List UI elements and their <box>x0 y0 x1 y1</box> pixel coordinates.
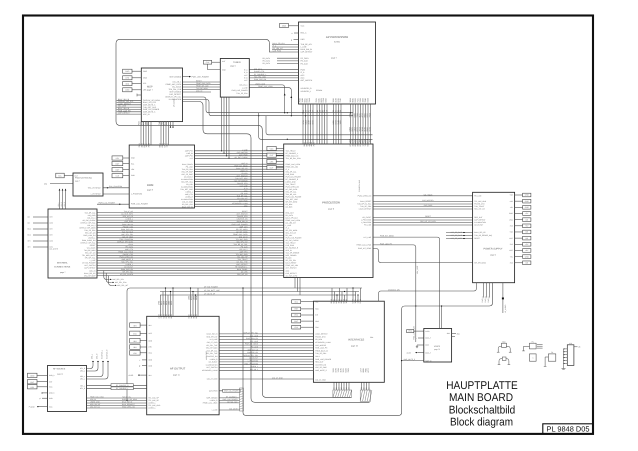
connector boxes left of PROCESSOR <box>267 146 284 169</box>
svg-text:PWR_C: PWR_C <box>487 296 490 303</box>
svg-text:page 14: page 14 <box>57 373 63 376</box>
svg-text:VSC_SP_SKIP: VSC_SP_SKIP <box>84 274 96 277</box>
svg-text:PLUGD: PLUGD <box>29 406 36 409</box>
svg-text:FRME_AAC_LRCK: FRME_AAC_LRCK <box>258 85 274 88</box>
svg-text:LINEIN_L: LINEIN_L <box>251 365 258 368</box>
svg-text:FRME_BCLK_IN: FRME_BCLK_IN <box>315 349 329 352</box>
svg-text:CD_BCK: CD_BCK <box>286 205 294 208</box>
connector box left of TUNER <box>203 60 220 69</box>
svg-text:DISPLAY_SPI_SCL: DISPLAY_SPI_SCL <box>243 331 258 334</box>
svg-text:8893: 8893 <box>147 121 150 125</box>
transistor Q1 <box>497 340 512 352</box>
svg-text:AP_MUTE_SP: AP_MUTE_SP <box>204 293 216 296</box>
svg-text:FRME_AAC_LRCK: FRME_AAC_LRCK <box>357 244 373 247</box>
wires MSP input lines from bus spine <box>117 98 142 115</box>
svg-text:ILLUMINATION: ILLUMINATION <box>206 363 218 366</box>
svg-text:PWR_INT_SENS: PWR_INT_SENS <box>358 247 372 250</box>
svg-text:PHASE_CTO: PHASE_CTO <box>254 70 265 73</box>
svg-text:s: s <box>416 337 417 340</box>
svg-text:LINEIN_L: LINEIN_L <box>148 407 155 410</box>
svg-text:LOUD_DETECT: LOUD_DETECT <box>315 333 327 336</box>
svg-text:ANT: ANT <box>222 60 225 63</box>
wires MSP bottom pins to DRM top pins <box>141 122 174 145</box>
svg-text:ALBD: ALBD <box>407 352 412 355</box>
svg-text:CHASSIS_ON: CHASSIS_ON <box>315 363 327 366</box>
block PHANTOM FEEDING N1 <box>73 173 103 196</box>
svg-text:SOURCE2_R: SOURCE2_R <box>301 87 313 90</box>
svg-text:GND: GND <box>525 206 530 209</box>
wire rail MSP to mid bus y112.7 <box>183 97 354 113</box>
wire main power bus power supply to bottom left <box>243 283 493 416</box>
svg-text:CHASSIS_ON: CHASSIS_ON <box>247 351 259 354</box>
pin number stacks below MSP <box>138 121 168 125</box>
connector boxes left of RF SOURCE <box>28 373 48 389</box>
junction dots mid rails <box>258 112 351 116</box>
svg-text:37: 37 <box>312 110 315 112</box>
svg-text:PWR_A: PWR_A <box>481 296 484 303</box>
svg-text:GND: GND <box>143 76 148 79</box>
svg-text:MSP: MSP <box>147 85 153 88</box>
svg-text:PD_LINE: PD_LINE <box>251 345 259 348</box>
svg-text:MIC_SPL_INT: MIC_SPL_INT <box>117 284 128 287</box>
svg-text:CIG_AT_GND: CIG_AT_GND <box>272 376 283 379</box>
svg-text:L_PHANTOM: L_PHANTOM <box>131 193 142 196</box>
svg-text:AP_SW_POWER: AP_SW_POWER <box>204 285 218 288</box>
svg-text:SCL: SCL <box>294 300 298 303</box>
svg-text:3V3: 3V3 <box>510 225 513 228</box>
connector boxes left of AF OUTPUT <box>130 323 147 368</box>
svg-text:AMR_MUTE_S: AMR_MUTE_S <box>404 358 416 361</box>
svg-text:KEYBOARD_ILLUM: KEYBOARD_ILLUM <box>315 341 331 344</box>
svg-text:7083: 7083 <box>347 368 350 372</box>
svg-text:PD_LINE: PD_LINE <box>364 224 372 227</box>
wires RF SOURCE mic and linein to AF OUTPUT <box>87 396 147 409</box>
svg-text:CAR_MOTOR+: CAR_MOTOR+ <box>422 199 434 202</box>
svg-text:CD2: CD2 <box>50 222 53 225</box>
svg-text:TUN_SP_SDA: TUN_SP_SDA <box>315 352 327 355</box>
svg-text:I2S AUDIO: I2S AUDIO <box>173 98 176 107</box>
svg-text:CAR_POSI: CAR_POSI <box>273 50 282 53</box>
svg-text:GND: GND <box>125 70 130 73</box>
svg-text:POW: POW <box>301 68 306 71</box>
svg-text:PWR_LOW_PH: PWR_LOW_PH <box>315 347 328 350</box>
svg-text:ADC_IN: ADC_IN <box>143 113 150 116</box>
svg-text:PD_DATA: PD_DATA <box>262 60 270 63</box>
svg-text:TUN_BP_ACL: TUN_BP_ACL <box>207 349 218 352</box>
svg-text:KEYBOARD_ILLUM: KEYBOARD_ILLUM <box>202 369 218 372</box>
wire bus MSP right to lower bus with corner <box>183 102 370 403</box>
svg-text:CD_SCL_THE: CD_SCL_THE <box>206 344 218 347</box>
svg-text:7242: 7242 <box>339 98 342 102</box>
svg-text:LLS_LINE: LLS_LINE <box>363 236 372 239</box>
svg-text:ADC_IN: ADC_IN <box>196 90 203 93</box>
svg-text:AD_IDC_CLOCK: AD_IDC_CLOCK <box>120 273 134 276</box>
svg-text:SCL: SCL <box>315 300 318 303</box>
svg-text:SCL: SCL <box>143 82 147 85</box>
connector boxes left of DRM <box>112 156 129 178</box>
svg-text:7824: 7824 <box>148 143 151 147</box>
connector boxes left of MSP <box>123 69 142 92</box>
svg-text:page 10: page 10 <box>351 345 358 348</box>
wire processor to power supply lower pin <box>373 249 473 263</box>
wire MSP left stub <box>137 94 141 97</box>
svg-text:CAP_DETECT: CAP_DETECT <box>301 51 314 54</box>
block INTERNAL CONNECTIONS J1 <box>48 209 97 278</box>
svg-text:SPI_SPI_MISO: SPI_SPI_MISO <box>474 261 486 264</box>
svg-text:TRKL_PHANTOM: TRKL_PHANTOM <box>244 362 258 365</box>
svg-text:TUN_SP_SDA: TUN_SP_SDA <box>236 92 248 95</box>
svg-text:TUN_BP_ERROR_INQ: TUN_BP_ERROR_INQ <box>474 234 492 237</box>
svg-text:page 72: page 72 <box>434 348 440 351</box>
svg-text:PWR_B: PWR_B <box>484 296 487 303</box>
svg-text:CONTROL BUS: CONTROL BUS <box>358 179 361 192</box>
svg-text:VAL_LINE: VAL_LINE <box>416 265 419 274</box>
svg-text:PWR_LIVE_POWER: PWR_LIVE_POWER <box>192 75 210 78</box>
svg-text:PD_DATA: PD_DATA <box>301 57 310 60</box>
svg-text:SCL: SCL <box>131 162 134 165</box>
svg-text:RESET: RESET <box>425 215 432 218</box>
svg-text:NF1_L: NF1_L <box>90 354 93 359</box>
svg-text:RES_S: RES_S <box>301 32 308 35</box>
svg-text:CAR_MOTOR: CAR_MOTOR <box>315 344 327 347</box>
wire VAL_LINE vertical <box>373 242 419 342</box>
svg-text:g: g <box>291 38 292 41</box>
svg-text:VSC_SP_MOD: VSC_SP_MOD <box>450 237 462 240</box>
svg-text:CD_ELECT: CD_ELECT <box>249 357 258 360</box>
svg-text:page 7: page 7 <box>147 89 153 92</box>
wires INTERFACES top pins from rails <box>332 287 361 301</box>
svg-text:VSC_SP_SKIP: VSC_SP_SKIP <box>315 366 327 369</box>
svg-text:0033: 0033 <box>312 120 315 124</box>
svg-text:PWR_INT_SENS: PWR_INT_SENS <box>245 343 259 346</box>
svg-text:FRME_AAC_LRCK: FRME_AAC_LRCK <box>203 402 219 405</box>
wire bundle AF OUTPUT to INTERFACES <box>219 331 313 379</box>
svg-text:CD_ELECT: CD_ELECT <box>474 224 483 227</box>
svg-text:SOURCE_R: SOURCE_R <box>105 349 108 359</box>
IC VOICE U6 <box>424 329 452 363</box>
connector box left of VOICE <box>407 330 424 333</box>
svg-text:PD_DATA: PD_DATA <box>262 62 270 65</box>
svg-text:SCL: SCL <box>116 157 120 160</box>
svg-text:GND: GND <box>30 375 35 378</box>
svg-text:CIG_AT_GND: CIG_AT_GND <box>207 378 218 381</box>
svg-text:AP_SW_BATT_LIVE: AP_SW_BATT_LIVE <box>204 289 221 292</box>
svg-text:page 9: page 9 <box>490 254 496 257</box>
svg-text:VSC_SP_SKIP: VSC_SP_SKIP <box>451 234 463 237</box>
wires POWER SUPPLY bottom stubs <box>481 283 490 303</box>
svg-text:CIG_AN_1: CIG_AN_1 <box>239 84 247 87</box>
IC AP PROCESSOR U3 <box>299 22 376 104</box>
svg-text:LINEIN_GND: LINEIN_GND <box>255 82 266 85</box>
wires TUNER right pins to AP PROCESSOR <box>249 67 298 81</box>
block RF SOURCE A2 <box>48 366 87 412</box>
svg-text:PROCESSOR: PROCESSOR <box>322 201 340 205</box>
svg-text:TDA_BP_PAL_CSN: TDA_BP_PAL_CSN <box>286 157 302 160</box>
svg-text:5574: 5574 <box>369 127 372 131</box>
wire MSP PWR_LIVE_POWER with arrow <box>183 75 210 78</box>
svg-text:GND: GND <box>301 38 306 41</box>
wire CHASSIS_ON interfaces to power supply <box>379 283 477 302</box>
svg-text:LINEIN_R: LINEIN_R <box>210 358 218 361</box>
connector box left of PHANTOM FEEDING <box>44 173 73 185</box>
connector hatch blocks below INTERFACES <box>333 390 372 401</box>
svg-text:1905: 1905 <box>339 120 342 124</box>
junction dot y139.3 bus <box>287 139 288 140</box>
svg-text:BALK_SPI_CS: BALK_SPI_CS <box>474 231 486 234</box>
svg-text:MIC_SPL_SCL: MIC_SPL_SCL <box>113 278 125 281</box>
connector strip hatched bottom left <box>240 388 244 411</box>
svg-text:CD_UNITS: CD_UNITS <box>50 248 59 251</box>
svg-text:PHASE_DTO: PHASE_DTO <box>315 335 326 338</box>
svg-text:SOURCE_L: SOURCE_L <box>100 350 103 359</box>
svg-text:GND: GND <box>525 194 530 197</box>
svg-text:s: s <box>292 32 293 35</box>
svg-text:TUNER: TUNER <box>233 61 241 64</box>
svg-text:PD_DATA: PD_DATA <box>262 57 270 60</box>
svg-text:AD_IDC_CLOCK: AD_IDC_CLOCK <box>235 156 249 159</box>
svg-text:PWR_LIVE_POWER: PWR_LIVE_POWER <box>232 89 249 92</box>
svg-text:MSP_DEMOD: MSP_DEMOD <box>170 75 182 78</box>
svg-text:BALK_INH_IN: BALK_INH_IN <box>207 333 219 336</box>
svg-text:3234c: 3234c <box>334 41 341 44</box>
wires TUNER bottom pins down to DRM bus lines <box>221 97 230 159</box>
svg-text:GBL: GBL <box>370 336 373 339</box>
wire ALBD arrow into AF OUTPUT <box>129 374 147 377</box>
svg-text:L_LINE: L_LINE <box>212 409 219 412</box>
svg-text:87: 87 <box>348 387 351 389</box>
svg-text:8350: 8350 <box>325 98 328 102</box>
wires RF SOURCE up arrows <box>87 349 110 379</box>
svg-text:TDA_PAL_CSN: TDA_PAL_CSN <box>254 76 267 79</box>
svg-text:RF_SOURCE_L: RF_SOURCE_L <box>116 387 128 390</box>
wire rail MSP to mid bus y115.7 <box>183 100 354 116</box>
svg-text:page 6: page 6 <box>328 208 334 211</box>
svg-text:RF_SOURCE_R: RF_SOURCE_R <box>116 384 129 387</box>
block INTERFACES N2 <box>313 299 384 382</box>
svg-text:PWM_CAR_ON: PWM_CAR_ON <box>254 78 267 81</box>
wires INTERNAL CONNECTIONS top pins up arrows <box>57 189 66 210</box>
connector box above AP PROCESSOR <box>280 24 299 28</box>
svg-text:LLS_LINE: LLS_LINE <box>250 340 259 343</box>
svg-text:L_LINE: L_LINE <box>242 86 249 89</box>
svg-text:ANT_SWITCH: ANT_SWITCH <box>301 79 313 82</box>
svg-text:LLS_LINE: LLS_LINE <box>210 338 219 341</box>
wires AF OUTPUT lower right pins to connector strip <box>219 389 240 410</box>
wire rail AP_SW_POWER y288 <box>126 285 362 401</box>
svg-text:3V3: 3V3 <box>510 261 513 264</box>
title block PL 9848 D05 <box>543 424 593 434</box>
capacitor network C2 <box>544 351 556 366</box>
svg-text:VOICE: VOICE <box>434 345 441 348</box>
svg-text:INTERFACES: INTERFACES <box>348 339 365 342</box>
wires AP FRME audio lines <box>270 42 299 53</box>
svg-text:Blockschaltbild: Blockschaltbild <box>449 405 516 417</box>
svg-text:06: 06 <box>339 110 342 112</box>
svg-text:CIG_AN_1: CIG_AN_1 <box>254 67 262 70</box>
wires INTERNAL CONNECTIONS arrow outputs <box>104 271 128 288</box>
svg-text:VSC_SP_SKIP: VSC_SP_SKIP <box>451 231 463 234</box>
svg-text:HAUPTPLATTE: HAUPTPLATTE <box>446 380 518 392</box>
svg-text:7354: 7354 <box>369 113 372 117</box>
svg-text:SCL: SCL <box>58 175 62 178</box>
svg-text:PD_AUX: PD_AUX <box>301 60 309 63</box>
svg-text:LS_AUDIO: LS_AUDIO <box>504 304 507 313</box>
svg-text:POWER SUPPLY: POWER SUPPLY <box>484 248 503 251</box>
transistor Q2 <box>498 357 511 365</box>
svg-text:082: 082 <box>369 139 372 142</box>
svg-text:PD_LINE: PD_LINE <box>474 195 482 198</box>
svg-text:BALK_INH_IN: BALK_INH_IN <box>182 205 194 208</box>
svg-text:page 5: page 5 <box>230 65 236 68</box>
svg-text:PWL_PHANTOM: PWL_PHANTOM <box>109 185 123 188</box>
wire rail y295 <box>160 293 356 296</box>
svg-text:CD2: CD2 <box>50 240 53 243</box>
wires PROCESSOR to POWER SUPPLY <box>373 193 473 225</box>
wire PWR_INT_SENS processor to VOICE <box>373 235 440 329</box>
svg-text:GND: GND <box>525 200 530 203</box>
svg-text:EPROM: EPROM <box>316 89 323 92</box>
block POWER SUPPLY PS1 <box>473 192 515 282</box>
svg-text:CD_BCK: CD_BCK <box>315 338 323 341</box>
wires VOICE stubs and AMR line <box>401 332 460 361</box>
svg-text:L_PHANTOM: L_PHANTOM <box>248 359 259 362</box>
IC MSP U1 <box>141 68 182 122</box>
wires RF SOURCE left stubs <box>40 392 48 400</box>
svg-text:CONNECTIONS: CONNECTIONS <box>54 266 71 269</box>
svg-text:DRM: DRM <box>147 183 154 187</box>
svg-text:HDD_SPI_INT: HDD_SPI_INT <box>206 335 217 338</box>
svg-text:NF1_R: NF1_R <box>95 353 98 359</box>
svg-text:GND: GND <box>525 255 530 258</box>
wire rail y291.5 <box>160 289 359 292</box>
svg-text:9806: 9806 <box>165 121 168 125</box>
svg-text:PD_AUX: PD_AUX <box>301 62 309 65</box>
wire branch down to processor top bus y134.8 <box>266 116 373 135</box>
svg-text:PWM_CHRG_ON: PWM_CHRG_ON <box>358 195 372 198</box>
svg-text:RESET: RESET <box>474 237 480 240</box>
svg-text:SEC_INT_CS: SEC_INT_CS <box>248 348 259 351</box>
wires MSP to TUNER <box>183 80 221 93</box>
svg-text:PWR_INT_SENS: PWR_INT_SENS <box>380 235 394 238</box>
svg-text:CIG_AT_GND: CIG_AT_GND <box>207 341 218 344</box>
svg-text:94: 94 <box>368 387 371 389</box>
svg-text:SOURCE2_L: SOURCE2_L <box>301 90 312 93</box>
IC DRM U4 <box>129 143 194 208</box>
connector J2 bottom right <box>562 342 581 370</box>
svg-text:AMPLIFIER: AMPLIFIER <box>205 350 208 360</box>
wire VOICE top pin to bus <box>441 305 442 328</box>
svg-text:RF SOURCE: RF SOURCE <box>53 368 66 371</box>
svg-text:AMR_MUTE_S: AMR_MUTE_S <box>315 369 327 372</box>
IC PROCESSOR U5 <box>284 142 373 277</box>
svg-text:page 8: page 8 <box>147 189 153 192</box>
svg-text:AP PROCESSOR: AP PROCESSOR <box>326 35 348 39</box>
svg-text:3164: 3164 <box>308 98 311 102</box>
wire PLUGD into RF SOURCE <box>29 406 48 409</box>
wires RF SOURCE to AF OUTPUT source lines with label boxes <box>87 384 147 390</box>
svg-text:CIG_AN_1: CIG_AN_1 <box>250 368 258 371</box>
svg-text:PWR_LOG_POWER: PWR_LOG_POWER <box>131 203 148 206</box>
capacitor network C1 <box>522 340 542 361</box>
wire bundle DRM to PROCESSOR <box>195 148 284 207</box>
wire PWR_LOG_POWER label line to DRM <box>97 202 129 205</box>
svg-text:REG_OUT: REG_OUT <box>315 361 323 364</box>
svg-text:LOUD_DETECT: LOUD_DETECT <box>359 208 371 211</box>
title text HAUPTPLATTE MAIN BOARD <box>446 380 518 429</box>
wires INTERNAL CONNECTIONS left stubs <box>28 216 49 249</box>
svg-text:page 11: page 11 <box>173 374 180 377</box>
svg-text:CHASSIS_ON: CHASSIS_ON <box>388 288 400 291</box>
wires AF OUTPUT top pins to rails <box>161 287 199 316</box>
svg-text:CIG_AT_GND: CIG_AT_GND <box>315 378 326 381</box>
svg-text:SEC_INT_CS_DATA: SEC_INT_CS_DATA <box>420 220 436 223</box>
pin number stacks between AP and PROCESSOR <box>302 110 372 143</box>
svg-text:PWR_LOW_PH: PWR_LOW_PH <box>380 242 393 245</box>
svg-text:GND: GND <box>125 89 130 92</box>
svg-text:PWR_LOW_PH: PWR_LOW_PH <box>246 337 259 340</box>
wires PHANTOM FEEDING to DRM <box>103 185 129 194</box>
wires PROCESSOR bottom pins to rails <box>295 278 300 296</box>
svg-text:ANT: ANT <box>244 79 247 82</box>
svg-text:CAR_POSI: CAR_POSI <box>209 390 218 393</box>
svg-text:ANT_SWITCH: ANT_SWITCH <box>206 366 218 369</box>
svg-text:3699: 3699 <box>345 299 348 303</box>
svg-text:MAIN BOARD: MAIN BOARD <box>449 392 513 404</box>
svg-text:CAR_POSI: CAR_POSI <box>424 204 433 207</box>
svg-text:GND: GND <box>282 24 287 27</box>
svg-text:GND: GND <box>143 70 148 73</box>
svg-text:RF_SOURCE_L: RF_SOURCE_L <box>254 73 266 76</box>
wires VSC arrow lines into POWER SUPPLY <box>446 231 473 240</box>
wire branch down to processor top bus y139.3 <box>259 113 373 140</box>
svg-text:LLS_LINE: LLS_LINE <box>250 334 259 337</box>
wires INTERFACES bottom pins to connectors <box>333 382 371 390</box>
svg-text:page 7: page 7 <box>331 57 337 60</box>
svg-text:8727: 8727 <box>367 368 370 372</box>
wire bus loop around MSP to AP and bottom bus <box>116 39 351 397</box>
svg-text:Block diagram: Block diagram <box>450 417 513 429</box>
svg-text:0184: 0184 <box>367 98 370 102</box>
wires AP PD lines <box>262 57 298 65</box>
svg-text:VSC_SP_MOD: VSC_SP_MOD <box>206 347 218 350</box>
connector boxes right of POWER SUPPLY <box>515 193 531 264</box>
svg-text:ALBD: ALBD <box>129 374 134 377</box>
svg-text:AF OUTPUT: AF OUTPUT <box>170 368 186 371</box>
svg-text:PWR_LIVE_POWER: PWR_LIVE_POWER <box>315 358 332 361</box>
svg-text:19: 19 <box>326 110 329 112</box>
wires AP left stubs <box>291 32 299 42</box>
svg-text:MIC_SPL_SDA: MIC_SPL_SDA <box>115 281 128 284</box>
connector boxes left of INTERFACES <box>292 300 314 329</box>
svg-text:ANT: ANT <box>244 74 247 77</box>
svg-text:DISPLAY_SPI_SCL: DISPLAY_SPI_SCL <box>243 354 258 357</box>
svg-text:SEC_INT_CS: SEC_INT_CS <box>237 273 248 276</box>
wire LS_AUDIO stub with square <box>502 283 507 313</box>
block AF OUTPUT A1 <box>147 296 219 415</box>
svg-text:page 7: page 7 <box>60 271 66 274</box>
wires AP bottom pins to PROCESSOR top <box>303 104 371 144</box>
svg-text:CD_SCL_THE: CD_SCL_THE <box>206 352 218 355</box>
svg-text:VAL_BACK: VAL_BACK <box>424 193 434 196</box>
svg-text:PL 9848 D05: PL 9848 D05 <box>547 425 590 434</box>
wire bundle INTERNAL CONNECTIONS to PROCESSOR <box>97 210 284 276</box>
wires TUNER control lines turning down <box>249 82 292 116</box>
svg-text:INTERNAL: INTERNAL <box>57 261 69 264</box>
svg-text:PWR_LOG_POWER: PWR_LOG_POWER <box>99 202 116 205</box>
svg-text:SEC_INT_CS: SEC_INT_CS <box>474 208 485 211</box>
svg-text:CHASSIS_ON: CHASSIS_ON <box>207 355 219 358</box>
IC TUNER U2 <box>220 59 249 98</box>
